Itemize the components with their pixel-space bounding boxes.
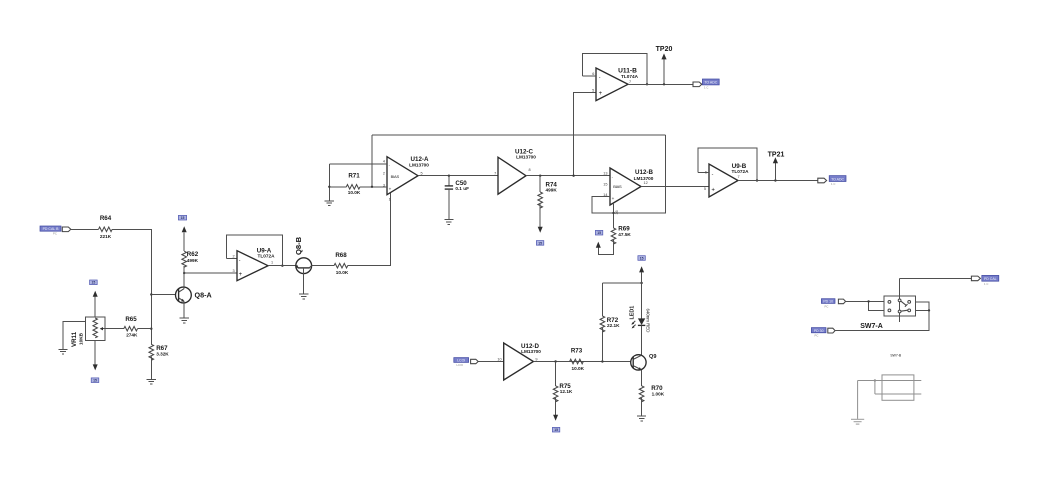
svg-text:R71: R71 bbox=[348, 173, 360, 180]
svg-text:+: + bbox=[612, 196, 615, 201]
svg-text:47.5K: 47.5K bbox=[618, 232, 631, 237]
svg-text:R68: R68 bbox=[335, 252, 347, 259]
wire R71 left leg and ground stub bbox=[328, 164, 330, 201]
svg-text:TL072A: TL072A bbox=[732, 169, 750, 174]
svg-text:TO ADC: TO ADC bbox=[704, 81, 717, 85]
svg-text:Q8-A: Q8-A bbox=[195, 291, 212, 300]
resistor R73 bbox=[570, 347, 585, 370]
svg-text:7: 7 bbox=[494, 172, 496, 176]
svg-text:R65: R65 bbox=[125, 316, 137, 323]
svg-text:LM13700: LM13700 bbox=[516, 155, 536, 160]
wire feedback drop to U12-A pin3 bbox=[371, 135, 373, 187]
port P7 input bottom left of SW7-A bbox=[811, 328, 835, 338]
svg-text:TL072A: TL072A bbox=[258, 254, 276, 259]
ota U12-B LM13700 bbox=[603, 168, 654, 215]
svg-text:7: 7 bbox=[737, 175, 739, 179]
transistor Q8-A bbox=[176, 273, 212, 318]
svg-text:TP21: TP21 bbox=[768, 151, 785, 158]
svg-text:-: - bbox=[239, 257, 241, 263]
svg-text:TP20: TP20 bbox=[656, 46, 673, 53]
wire U9-A feedback box bbox=[226, 235, 282, 266]
svg-text:2: 2 bbox=[232, 254, 234, 258]
ground below Q8-A bbox=[180, 318, 189, 323]
power flag below R74 bbox=[536, 241, 543, 246]
power arrow above R62 bbox=[182, 226, 187, 232]
svg-text:4: 4 bbox=[383, 160, 385, 164]
resistor R72 bbox=[600, 283, 620, 363]
svg-text:5: 5 bbox=[421, 172, 423, 176]
svg-text:10KB: 10KB bbox=[79, 332, 84, 345]
svg-text:12.1K: 12.1K bbox=[560, 389, 573, 394]
wire U9-B feedback box bbox=[698, 148, 757, 181]
svg-text:15: 15 bbox=[597, 231, 601, 235]
svg-text:15: 15 bbox=[554, 428, 558, 432]
ground below R70 bbox=[637, 416, 646, 421]
svg-text:15: 15 bbox=[640, 256, 644, 260]
wire port P7 to SW7-A right pins bbox=[835, 302, 929, 331]
svg-text:LED1: LED1 bbox=[629, 306, 635, 320]
svg-text:12: 12 bbox=[644, 181, 648, 185]
svg-text:VR11: VR11 bbox=[71, 331, 78, 347]
wire input to R64 bbox=[71, 228, 99, 230]
ground below SW7-B (greyed) bbox=[851, 419, 864, 424]
svg-text:15: 15 bbox=[92, 281, 96, 285]
VR11 left lead to ground bbox=[63, 322, 86, 350]
svg-text:10.0K: 10.0K bbox=[348, 190, 361, 195]
svg-text:R73: R73 bbox=[571, 347, 583, 354]
wire top feedback bus bbox=[372, 134, 665, 136]
wire U12-C node up to U11-B pin5 bbox=[574, 92, 596, 175]
wire U9-A pin3 bbox=[184, 272, 237, 274]
power flag above LED1 bbox=[638, 256, 645, 261]
svg-text:10.0K: 10.0K bbox=[336, 270, 349, 275]
port P6 input left of SW7-A bbox=[821, 299, 845, 309]
port P5 output top right bbox=[971, 275, 998, 286]
svg-text:13: 13 bbox=[603, 172, 607, 176]
svg-text:+: + bbox=[599, 91, 603, 97]
wire U11-B output bbox=[628, 83, 693, 85]
ground below C50 bbox=[444, 220, 453, 225]
ota U12-A LM13700 bbox=[383, 156, 429, 201]
svg-text:1 C: 1 C bbox=[704, 86, 708, 90]
power arrow at R69 bbox=[596, 242, 601, 248]
resistor R69 bbox=[598, 226, 631, 255]
svg-text:16: 16 bbox=[615, 210, 619, 214]
wire U9-A pin2 bbox=[226, 258, 237, 260]
svg-text:PC: PC bbox=[53, 232, 57, 236]
svg-text:LCOI: LCOI bbox=[457, 363, 464, 367]
testpoint TP20 bbox=[656, 46, 673, 85]
wire U12-B pin14 loop and box to top bus bbox=[592, 135, 665, 213]
op-amp U11-B TL074A bbox=[592, 67, 639, 100]
svg-text:R64: R64 bbox=[100, 215, 112, 222]
wire port P6 to SW7-A left pins bbox=[846, 300, 884, 302]
transistor Q9 bbox=[631, 354, 657, 370]
ground below R67 bbox=[147, 379, 156, 384]
svg-text:TO ADC: TO ADC bbox=[831, 177, 844, 181]
power arrow below R74 bbox=[538, 227, 543, 233]
svg-text:1: 1 bbox=[271, 260, 273, 264]
wire U9-B output bbox=[738, 180, 818, 182]
wire U12-A output bbox=[418, 175, 498, 177]
svg-text:Q9: Q9 bbox=[649, 354, 656, 360]
svg-text:499K: 499K bbox=[546, 187, 558, 192]
svg-text:5: 5 bbox=[592, 88, 594, 92]
diode LED1 640nm RED bbox=[629, 306, 650, 356]
port P3 output after U9-B bbox=[818, 176, 846, 187]
svg-text:SW7-B: SW7-B bbox=[890, 353, 901, 357]
resistor R74 bbox=[538, 175, 558, 227]
power flag above R62 bbox=[178, 215, 186, 220]
svg-text:10: 10 bbox=[497, 357, 501, 361]
svg-text:3.32K: 3.32K bbox=[156, 351, 169, 356]
svg-text:BIAS: BIAS bbox=[391, 174, 400, 179]
power arrow below R75 bbox=[553, 415, 558, 421]
svg-text:PC: PC bbox=[825, 304, 829, 308]
wire U12-A pin4 bbox=[329, 163, 387, 165]
svg-text:0.1 uF: 0.1 uF bbox=[455, 186, 469, 191]
resistor R62 bbox=[182, 232, 199, 273]
svg-text:10.0K: 10.0K bbox=[572, 366, 585, 371]
wire U11-B feedback box bbox=[582, 54, 647, 85]
svg-text:8: 8 bbox=[529, 168, 531, 172]
node Q8-A collector / R62 / U9-A pin3 bbox=[183, 272, 185, 274]
transistor Q8-B bbox=[294, 236, 312, 293]
VR11 bottom lead to power flag bbox=[91, 341, 99, 383]
VR11 top lead to power flag bbox=[90, 280, 98, 317]
svg-text:499K: 499K bbox=[187, 258, 199, 263]
power flag at R69 bbox=[595, 230, 602, 235]
svg-text:15: 15 bbox=[93, 379, 97, 383]
wire U9-B pin6 bbox=[698, 171, 709, 173]
ota U12-C LM13700 bbox=[494, 148, 536, 194]
svg-text:15: 15 bbox=[181, 216, 185, 220]
svg-text:PD 10: PD 10 bbox=[823, 300, 833, 304]
op-amp U9-A TL072A bbox=[232, 247, 275, 280]
svg-text:22.1K: 22.1K bbox=[607, 323, 620, 328]
resistor R68 bbox=[312, 252, 349, 275]
port P2 output after U11-B bbox=[693, 79, 719, 90]
svg-text:+: + bbox=[389, 186, 392, 191]
op-amp U9-B TL072A bbox=[704, 163, 749, 197]
svg-text:9: 9 bbox=[535, 357, 537, 361]
ota U12-D LM13700 bbox=[497, 343, 541, 380]
wire R68 to U12-A pin1 bbox=[348, 193, 391, 266]
wire U12-B output to U9-B pin5 bbox=[641, 186, 709, 188]
svg-text:PC: PC bbox=[815, 334, 819, 338]
ground below R71 bbox=[325, 201, 334, 206]
wire Q8-A base bbox=[151, 294, 175, 296]
wire U12-C output to U12-B pin13 bbox=[526, 175, 610, 177]
resistor R71 bbox=[346, 173, 387, 195]
resistor R67 bbox=[149, 344, 169, 379]
power arrow above LED1 bbox=[639, 266, 644, 272]
wire U11-B pin6 bbox=[582, 75, 596, 77]
wire SW7-A common to port P5 bbox=[900, 277, 972, 279]
svg-text:PD CAL B: PD CAL B bbox=[43, 227, 59, 231]
port P4 input to U12-D bbox=[454, 358, 478, 367]
svg-text:7: 7 bbox=[629, 80, 631, 84]
capacitor C50 0.1 uF bbox=[445, 175, 469, 220]
svg-text:274K: 274K bbox=[126, 332, 138, 337]
node junction base rail / Q8-A base bbox=[150, 293, 152, 295]
wire U12-D output to Q9 base bbox=[533, 361, 631, 363]
svg-text:15: 15 bbox=[603, 182, 607, 186]
svg-text:6: 6 bbox=[592, 72, 594, 76]
ground at VR11 bbox=[58, 349, 67, 354]
svg-text:1 C: 1 C bbox=[831, 182, 835, 186]
svg-text:LM13700: LM13700 bbox=[521, 349, 541, 354]
wire U12-B pin16 to R69 bbox=[613, 203, 615, 228]
svg-text:PD CAL: PD CAL bbox=[984, 277, 997, 281]
power flag below R75 bbox=[552, 427, 559, 432]
svg-text:221K: 221K bbox=[100, 234, 112, 239]
resistor R70 bbox=[639, 370, 664, 416]
resistor R64 bbox=[99, 215, 113, 239]
svg-text:1 C: 1 C bbox=[984, 282, 988, 286]
svg-text:-: - bbox=[599, 74, 601, 80]
wire R72 top to LED rail bbox=[602, 282, 641, 284]
ground below Q8-B bbox=[299, 294, 308, 299]
resistor R65 bbox=[105, 316, 151, 338]
svg-text:+: + bbox=[711, 187, 715, 193]
svg-text:1: 1 bbox=[389, 198, 391, 202]
svg-text:2: 2 bbox=[383, 171, 385, 175]
svg-text:+: + bbox=[239, 272, 243, 278]
svg-text:640nm RED: 640nm RED bbox=[645, 309, 650, 333]
resistor R75 bbox=[553, 360, 573, 415]
svg-text:PD 30: PD 30 bbox=[814, 329, 824, 333]
svg-text:3: 3 bbox=[232, 269, 234, 273]
svg-text:1.00K: 1.00K bbox=[652, 392, 665, 397]
wire port to U12-D pin10 bbox=[478, 361, 503, 363]
potentiometer VR11 10KB bbox=[71, 317, 105, 347]
svg-text:TL074A: TL074A bbox=[621, 74, 639, 79]
port P1 input PD_CAL_B bbox=[40, 226, 71, 236]
wire flag to LED1 bbox=[641, 272, 643, 318]
svg-text:Q8-B: Q8-B bbox=[294, 236, 303, 255]
svg-text:-: - bbox=[712, 171, 714, 177]
switch SW7-B (greyed) bbox=[858, 353, 922, 419]
wire U9-A output to Q8-B bbox=[268, 265, 296, 267]
svg-text:BIAS: BIAS bbox=[613, 184, 622, 189]
svg-text:SW7-A: SW7-A bbox=[860, 323, 883, 330]
svg-text:LM13700: LM13700 bbox=[409, 163, 429, 168]
switch SW7-A bbox=[860, 278, 915, 329]
testpoint TP21 bbox=[768, 151, 785, 181]
wire U12-A pin3 left bbox=[329, 186, 346, 188]
svg-text:5: 5 bbox=[704, 187, 706, 191]
wire R64 to vertical rail bbox=[112, 229, 151, 344]
svg-text:15: 15 bbox=[538, 241, 542, 245]
